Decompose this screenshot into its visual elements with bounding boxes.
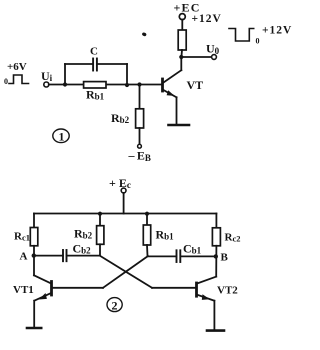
svg-text:C: C	[90, 46, 98, 58]
VT1 emitter arrow	[39, 293, 47, 300]
svg-text:U0: U0	[206, 42, 220, 57]
output wire	[181, 56, 211, 58]
terminal -EB	[138, 144, 142, 148]
resistor Rb2	[97, 226, 104, 245]
wire Rb2 to -EB terminal	[139, 128, 141, 144]
svg-text:Rb2: Rb2	[111, 111, 130, 125]
wire rail to Rb1	[146, 214, 148, 226]
node at right of parallel RC	[125, 83, 129, 87]
wire Rc2 to B and VT2 collector	[215, 246, 217, 277]
VT1 base wire	[53, 287, 103, 289]
wire top C branch left	[65, 63, 93, 65]
ground VT2	[207, 329, 224, 332]
svg-text:Rb1: Rb1	[156, 228, 175, 242]
VT2 base wire	[152, 287, 195, 289]
wire down to Rb2	[139, 85, 141, 109]
svg-text:Cb2: Cb2	[73, 242, 92, 256]
ground (top circuit)	[169, 124, 190, 127]
wire top C branch right	[97, 63, 127, 65]
VT2 emitter diagonal	[198, 295, 215, 301]
VT1 emitter diagonal	[34, 293, 50, 300]
VT1 collector diagonal	[34, 275, 51, 283]
capacitor Cb2	[62, 250, 64, 261]
VT1 emitter wire	[33, 301, 35, 327]
svg-text:0: 0	[256, 37, 260, 46]
svg-text:2: 2	[112, 299, 118, 313]
resistor Rb1	[143, 225, 150, 245]
node base/Rb2 junction	[137, 82, 141, 86]
svg-text:A: A	[20, 251, 28, 263]
wire input to base	[49, 84, 162, 86]
svg-text:Rc2: Rc2	[225, 232, 241, 244]
svg-text:1: 1	[59, 130, 65, 144]
ground VT1	[27, 327, 41, 330]
circled 2	[107, 298, 122, 312]
svg-text:VT: VT	[187, 78, 204, 92]
collector node	[179, 55, 183, 59]
svg-text:Rb1: Rb1	[86, 88, 105, 102]
transistor VT2 base bar	[195, 283, 198, 296]
capacitor Cb1	[176, 250, 178, 262]
VT2 emitter arrow	[202, 294, 210, 300]
wire Cb1 to node B	[181, 255, 216, 257]
wire Rc to collector node	[180, 50, 183, 57]
resistor Rc2	[212, 228, 220, 246]
circled 1	[53, 129, 69, 143]
svg-text:VT2: VT2	[217, 285, 238, 297]
wire Rc1 to VT1 collector	[33, 246, 35, 275]
svg-text:+12V: +12V	[192, 13, 222, 25]
node B	[214, 254, 218, 258]
svg-text:+6V: +6V	[7, 61, 27, 73]
input terminal Ui	[44, 82, 49, 87]
svg-text:Cb1: Cb1	[183, 242, 202, 256]
resistor Rb2	[136, 109, 144, 128]
svg-text:0: 0	[4, 77, 8, 86]
VT2 collector diagonal	[198, 277, 217, 284]
wire right vertical of C branch	[126, 64, 128, 85]
capacitor C	[92, 59, 94, 71]
node A	[32, 253, 36, 257]
wire Rb2 to junction	[99, 244, 101, 255]
VT collector vertical	[180, 57, 182, 70]
wire junction to Cb1	[148, 255, 177, 257]
resistor Rb1	[84, 82, 106, 88]
output waveform	[229, 29, 254, 42]
supply terminal +EC	[179, 14, 185, 20]
wire left vertical of C branch	[64, 64, 66, 85]
wire rail to Rc2	[215, 214, 217, 228]
emitter vertical wire	[176, 97, 178, 124]
svg-text:Rb2: Rb2	[74, 227, 93, 241]
rail node Rb1	[145, 212, 149, 216]
rail node Rb2	[98, 212, 102, 216]
wire +EC to Rc	[181, 20, 183, 30]
wire +Ec to rail	[123, 193, 125, 214]
svg-text:– EB: – EB	[128, 149, 151, 164]
cross-coupling wire to VT1 base	[103, 256, 148, 288]
supply rail	[34, 213, 216, 215]
VT2 emitter wire	[213, 301, 215, 330]
svg-text:+12V: +12V	[262, 25, 292, 37]
wire A to Cb2	[34, 255, 63, 257]
stray mark	[142, 32, 147, 37]
input pulse waveform	[9, 75, 29, 84]
svg-text:B: B	[221, 252, 229, 264]
VT emitter diagonal	[164, 90, 177, 97]
resistor Rc (collector)	[178, 30, 186, 50]
node at left of parallel RC	[63, 82, 67, 86]
wire rail to Rb2	[99, 214, 101, 226]
wire Cb2 to junction	[67, 255, 100, 257]
transistor VT1 base bar	[50, 282, 53, 296]
wire rail down to Rc1	[33, 214, 35, 228]
svg-text:+ Ec: + Ec	[109, 176, 131, 190]
cross-coupling wire to VT2 base	[100, 256, 152, 288]
svg-text:Ui: Ui	[41, 69, 53, 83]
svg-text:Rc1: Rc1	[14, 231, 30, 243]
output terminal Uo	[212, 55, 217, 60]
emitter arrow	[167, 90, 175, 96]
resistor Rc1	[30, 228, 38, 246]
transistor VT base bar	[161, 79, 164, 91]
VT collector diagonal	[164, 70, 182, 82]
+Ec terminal	[121, 188, 126, 193]
svg-text:VT1: VT1	[13, 284, 34, 296]
wire Rb1 to junction	[146, 245, 149, 256]
